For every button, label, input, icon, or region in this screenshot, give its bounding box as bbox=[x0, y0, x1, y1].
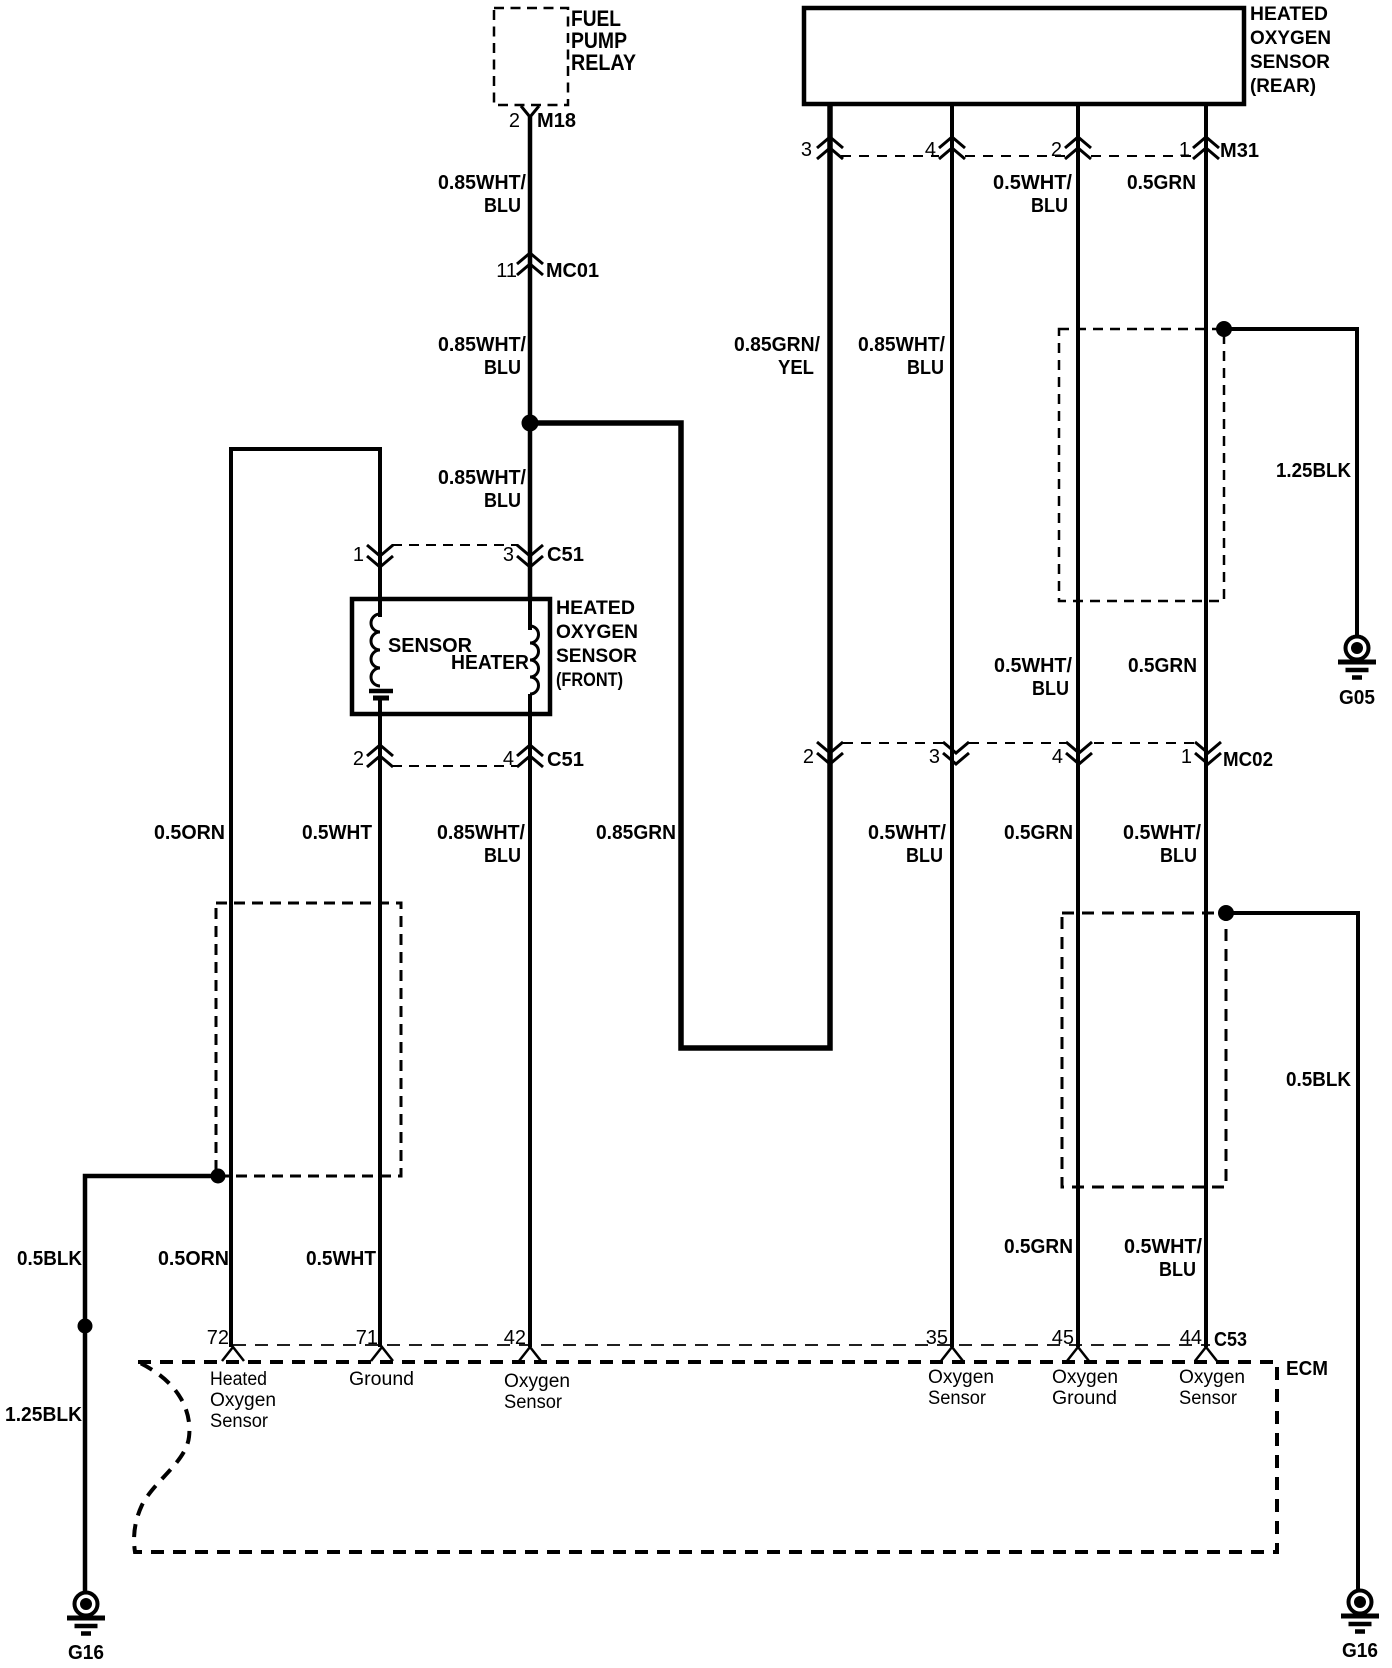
wire 0.85GRN branch: right, down, right, up to M31 pin3 bbox=[530, 104, 830, 1048]
connector MC02 pin 1 chevron bbox=[1195, 742, 1221, 753]
svg-text:0.85WHT/: 0.85WHT/ bbox=[438, 334, 526, 356]
svg-text:Oxygen: Oxygen bbox=[504, 1371, 570, 1392]
svg-text:(REAR): (REAR) bbox=[1250, 76, 1316, 97]
heated oxygen sensor (front) box bbox=[352, 599, 550, 714]
svg-text:3: 3 bbox=[503, 544, 514, 566]
svg-text:2: 2 bbox=[353, 748, 364, 770]
connector M31 pin 2 chevron bbox=[1065, 137, 1091, 148]
svg-text:0.5WHT: 0.5WHT bbox=[306, 1248, 376, 1270]
svg-text:M18: M18 bbox=[537, 110, 576, 132]
svg-text:0.85GRN: 0.85GRN bbox=[596, 822, 676, 844]
svg-text:G16: G16 bbox=[1342, 1640, 1378, 1662]
svg-text:Heated: Heated bbox=[210, 1369, 267, 1390]
connector MC02 dashed links bbox=[843, 742, 943, 744]
svg-text:Sensor: Sensor bbox=[504, 1392, 563, 1413]
svg-text:0.85WHT/: 0.85WHT/ bbox=[858, 334, 945, 356]
svg-text:MC01: MC01 bbox=[546, 260, 599, 282]
svg-text:0.5WHT/: 0.5WHT/ bbox=[868, 822, 946, 844]
svg-text:BLU: BLU bbox=[484, 490, 521, 512]
svg-text:BLU: BLU bbox=[906, 845, 943, 867]
svg-text:0.5WHT/: 0.5WHT/ bbox=[1123, 822, 1201, 844]
svg-text:BLU: BLU bbox=[484, 357, 521, 379]
wire 0.5ORN pin1 up-over-down to ECM pin 72 bbox=[231, 449, 380, 1347]
wire 0.85WHT/BLU from M18 down to front sensor pin3 bbox=[528, 115, 533, 600]
svg-text:MC02: MC02 bbox=[1223, 749, 1273, 771]
svg-text:4: 4 bbox=[503, 748, 514, 770]
connector C51 pin 3 chevron bbox=[517, 545, 543, 556]
svg-text:Ground: Ground bbox=[349, 1369, 414, 1390]
svg-text:HEATED: HEATED bbox=[556, 598, 635, 619]
shield box lower right (dashed) bbox=[1062, 913, 1226, 1187]
ECM pin 71 terminal bbox=[371, 1347, 393, 1361]
fuel pump relay K (dashed box) bbox=[494, 8, 568, 105]
svg-text:35: 35 bbox=[926, 1327, 948, 1349]
svg-text:SENSOR: SENSOR bbox=[556, 646, 637, 667]
svg-text:BLU: BLU bbox=[907, 357, 944, 379]
connector C51 pin 2 chevron bbox=[367, 745, 393, 756]
sensor cell plates bbox=[369, 689, 393, 694]
wire heater to pin 4 bbox=[528, 694, 532, 717]
wire M31 pin1 to ECM pin 44 bbox=[1204, 104, 1208, 1347]
svg-text:Oxygen: Oxygen bbox=[1052, 1367, 1118, 1388]
wire 0.5BLK drain horizontal and down to left G16 bbox=[85, 1176, 218, 1594]
svg-text:4: 4 bbox=[1052, 746, 1063, 768]
connector M31 dashed links bbox=[841, 155, 939, 157]
wire 0.5BLK shield drain right bbox=[1226, 913, 1358, 1592]
svg-text:HEATER: HEATER bbox=[451, 652, 530, 674]
svg-text:0.5BLK: 0.5BLK bbox=[17, 1248, 83, 1270]
svg-text:0.5WHT: 0.5WHT bbox=[302, 822, 372, 844]
wire 0.85WHT/BLU pin4 down to ECM pin 42 bbox=[528, 715, 532, 1347]
ECM pin 44 terminal bbox=[1195, 1347, 1217, 1361]
svg-text:Sensor: Sensor bbox=[1179, 1388, 1238, 1409]
junction node shield drain to right G16 bbox=[1218, 905, 1234, 921]
wire pin3 into heater coil bbox=[528, 598, 532, 630]
svg-text:72: 72 bbox=[207, 1327, 229, 1349]
shield box left (dashed) bbox=[216, 903, 401, 1176]
svg-text:0.85GRN/: 0.85GRN/ bbox=[734, 334, 820, 356]
svg-text:42: 42 bbox=[504, 1327, 526, 1349]
svg-text:4: 4 bbox=[925, 139, 936, 161]
svg-text:G16: G16 bbox=[68, 1642, 104, 1664]
ECM pin 42 terminal bbox=[519, 1347, 541, 1361]
connector C51 pin 4 chevron bbox=[517, 745, 543, 756]
svg-text:71: 71 bbox=[356, 1327, 378, 1349]
svg-text:0.5WHT/: 0.5WHT/ bbox=[1124, 1236, 1202, 1258]
wire 0.5WHT pin2 down to ECM pin 71 bbox=[378, 715, 382, 1347]
svg-text:2: 2 bbox=[509, 110, 520, 132]
junction splice on left drain wire bbox=[78, 1319, 93, 1334]
svg-text:RELAY: RELAY bbox=[571, 50, 636, 75]
connector MC02 pin 3 chevron bbox=[943, 742, 969, 753]
connector MC01 pin 11 (double chevron) bbox=[517, 253, 543, 264]
svg-text:0.85WHT/: 0.85WHT/ bbox=[437, 822, 525, 844]
svg-text:BLU: BLU bbox=[1159, 1259, 1196, 1281]
ground G05 bbox=[1346, 637, 1369, 660]
svg-text:YEL: YEL bbox=[778, 357, 814, 379]
svg-text:BLU: BLU bbox=[1032, 678, 1069, 700]
shield box upper right (dashed) bbox=[1059, 329, 1224, 601]
ECM box (dashed, curvy left edge) bbox=[134, 1362, 1277, 1552]
svg-text:0.5ORN: 0.5ORN bbox=[154, 822, 225, 844]
svg-text:2: 2 bbox=[803, 746, 814, 768]
svg-text:M31: M31 bbox=[1220, 140, 1259, 162]
ECM pin 45 terminal bbox=[1067, 1347, 1089, 1361]
svg-text:Sensor: Sensor bbox=[928, 1388, 987, 1409]
svg-text:OXYGEN: OXYGEN bbox=[556, 622, 638, 643]
svg-text:0.5BLK: 0.5BLK bbox=[1286, 1069, 1352, 1091]
heated oxygen sensor (rear) box bbox=[804, 8, 1244, 104]
svg-text:1: 1 bbox=[1179, 139, 1190, 161]
svg-text:0.5WHT/: 0.5WHT/ bbox=[994, 655, 1072, 677]
svg-text:1: 1 bbox=[353, 544, 364, 566]
connector C53 dashed line bbox=[233, 1344, 1210, 1346]
ground G16 right bbox=[1349, 1591, 1372, 1614]
svg-text:0.85WHT/: 0.85WHT/ bbox=[438, 172, 526, 194]
svg-text:44: 44 bbox=[1180, 1327, 1202, 1349]
svg-text:ECM: ECM bbox=[1286, 1358, 1328, 1380]
svg-text:SENSOR: SENSOR bbox=[1250, 52, 1330, 73]
svg-text:G05: G05 bbox=[1339, 687, 1375, 709]
junction node left shield drain bbox=[211, 1169, 226, 1184]
svg-text:0.5GRN: 0.5GRN bbox=[1004, 822, 1073, 844]
svg-text:BLU: BLU bbox=[484, 845, 521, 867]
connector MC02 pin 4 chevron bbox=[1066, 742, 1092, 753]
svg-text:0.5GRN: 0.5GRN bbox=[1004, 1236, 1073, 1258]
wire M31 pin4 to ECM pin 35 bbox=[950, 104, 954, 1347]
svg-text:1.25BLK: 1.25BLK bbox=[5, 1404, 83, 1426]
wire cell to pin 2 bbox=[378, 700, 382, 717]
svg-text:45: 45 bbox=[1052, 1327, 1074, 1349]
svg-text:0.85WHT/: 0.85WHT/ bbox=[438, 467, 526, 489]
svg-text:1: 1 bbox=[1181, 746, 1192, 768]
connector M18 pin 2 (female terminal at relay) bbox=[521, 106, 539, 117]
wire M31 pin2 to ECM pin 45 bbox=[1076, 104, 1080, 1347]
svg-text:3: 3 bbox=[929, 746, 940, 768]
heater coil bbox=[530, 626, 539, 694]
svg-text:2: 2 bbox=[1051, 139, 1062, 161]
svg-text:3: 3 bbox=[801, 139, 812, 161]
svg-text:(FRONT): (FRONT) bbox=[556, 670, 623, 691]
svg-text:0.5WHT/: 0.5WHT/ bbox=[993, 172, 1072, 194]
junction node shield drain to G05 bbox=[1216, 321, 1232, 337]
svg-text:Oxygen: Oxygen bbox=[1179, 1367, 1245, 1388]
svg-text:HEATED: HEATED bbox=[1250, 4, 1328, 25]
svg-text:1.25BLK: 1.25BLK bbox=[1276, 460, 1352, 482]
wire pin1 into sensor coil bbox=[378, 449, 382, 617]
connector MC02 pin 2 chevron bbox=[817, 742, 843, 753]
svg-text:0.5GRN: 0.5GRN bbox=[1128, 655, 1197, 677]
sensor element coil bbox=[371, 614, 380, 686]
svg-text:C53: C53 bbox=[1214, 1329, 1247, 1351]
connector C51 pin 1 chevron bbox=[367, 545, 393, 556]
connector M31 pin 3 chevron bbox=[817, 137, 843, 148]
svg-text:Oxygen: Oxygen bbox=[210, 1390, 276, 1411]
connector M31 pin 4 chevron bbox=[939, 137, 965, 148]
svg-text:Sensor: Sensor bbox=[210, 1411, 269, 1432]
ECM pin 72 terminal bbox=[222, 1347, 244, 1361]
ground G16 left bbox=[75, 1593, 98, 1616]
svg-text:C51: C51 bbox=[547, 544, 584, 566]
svg-text:11: 11 bbox=[496, 260, 517, 282]
junction node splice on 0.85WHT/BLU bbox=[522, 415, 539, 432]
svg-text:C51: C51 bbox=[547, 749, 584, 771]
svg-text:BLU: BLU bbox=[1031, 195, 1068, 217]
connector C51 row B dashed link bbox=[392, 765, 518, 767]
svg-text:Oxygen: Oxygen bbox=[928, 1367, 994, 1388]
connector M31 pin 1 chevron bbox=[1193, 137, 1219, 148]
svg-text:OXYGEN: OXYGEN bbox=[1250, 28, 1331, 49]
wire 1.25BLK shield drain to G05 bbox=[1224, 329, 1357, 637]
svg-text:BLU: BLU bbox=[1160, 845, 1197, 867]
connector C51 row A dashed link bbox=[392, 544, 518, 546]
ECM pin 35 terminal bbox=[941, 1347, 963, 1361]
svg-text:0.5ORN: 0.5ORN bbox=[158, 1248, 229, 1270]
svg-text:Ground: Ground bbox=[1052, 1388, 1117, 1409]
svg-text:BLU: BLU bbox=[484, 195, 521, 217]
svg-text:0.5GRN: 0.5GRN bbox=[1127, 172, 1196, 194]
